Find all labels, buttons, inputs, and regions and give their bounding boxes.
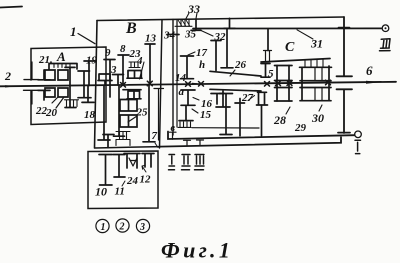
svg-text:15: 15 xyxy=(200,109,212,121)
svg-text:7: 7 xyxy=(152,130,158,142)
svg-text:в: в xyxy=(171,123,176,134)
svg-text:20: 20 xyxy=(45,107,58,119)
svg-text:8: 8 xyxy=(120,43,126,55)
svg-text:27: 27 xyxy=(241,92,254,104)
svg-text:C: C xyxy=(285,40,295,55)
svg-text:5: 5 xyxy=(268,68,274,80)
svg-text:14: 14 xyxy=(175,72,187,84)
svg-text:Фиг.1: Фиг.1 xyxy=(161,238,233,263)
svg-text:10: 10 xyxy=(95,185,107,199)
svg-text:9: 9 xyxy=(105,47,111,59)
svg-text:12: 12 xyxy=(140,174,152,186)
svg-text:19: 19 xyxy=(86,55,98,67)
svg-text:1: 1 xyxy=(70,24,77,39)
svg-text:34: 34 xyxy=(163,30,176,42)
svg-text:25: 25 xyxy=(136,107,149,119)
svg-text:1: 1 xyxy=(101,222,106,233)
svg-text:2: 2 xyxy=(4,69,11,83)
svg-text:a: a xyxy=(179,86,185,98)
svg-text:32: 32 xyxy=(214,31,227,43)
svg-text:B: B xyxy=(125,20,137,37)
svg-text:26: 26 xyxy=(234,59,247,71)
svg-text:18: 18 xyxy=(84,109,96,121)
svg-text:h: h xyxy=(199,59,205,71)
svg-text:28: 28 xyxy=(273,113,286,127)
svg-text:2: 2 xyxy=(119,222,125,233)
svg-text:13: 13 xyxy=(145,33,157,45)
svg-text:30: 30 xyxy=(311,111,324,125)
svg-text:3: 3 xyxy=(139,222,145,233)
svg-text:6: 6 xyxy=(366,63,373,78)
svg-text:31: 31 xyxy=(310,37,323,51)
svg-text:11: 11 xyxy=(115,186,125,198)
svg-text:21.: 21. xyxy=(38,54,53,66)
svg-text:4: 4 xyxy=(136,55,143,67)
svg-text:A: A xyxy=(56,49,66,64)
svg-text:24: 24 xyxy=(126,175,139,187)
svg-text:3: 3 xyxy=(110,64,117,76)
svg-text:33: 33 xyxy=(187,2,200,16)
svg-text:35: 35 xyxy=(184,29,197,41)
svg-text:17: 17 xyxy=(196,47,208,59)
svg-text:29: 29 xyxy=(294,122,307,134)
